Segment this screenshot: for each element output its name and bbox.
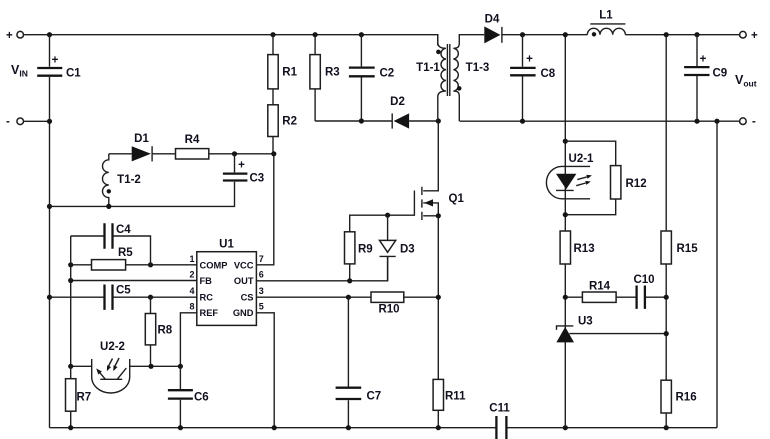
- svg-text:-: -: [752, 116, 756, 128]
- svg-text:R4: R4: [185, 134, 200, 146]
- diode D3: [387, 215, 389, 281]
- svg-text:REF: REF: [200, 308, 219, 318]
- svg-text:C8: C8: [541, 68, 556, 80]
- svg-text:T1-1: T1-1: [416, 62, 440, 74]
- diode D4: [484, 26, 500, 43]
- node C7 bottom junction: [346, 425, 351, 430]
- wire + terminal to top rail: [23, 35, 438, 46]
- svg-text:R9: R9: [358, 244, 373, 256]
- wire U3 ref line: [569, 333, 666, 335]
- svg-text:C1: C1: [66, 68, 81, 80]
- node C8 top junction: [520, 32, 525, 37]
- transformer core: [447, 44, 449, 96]
- resistor R3: [314, 35, 316, 121]
- terminal + output: [740, 31, 747, 38]
- svg-text:C10: C10: [633, 274, 654, 286]
- wire bottom ground rail: [50, 427, 718, 429]
- node FB/R7/U2-2 junction: [68, 364, 73, 369]
- node C8 bottom junction: [520, 119, 525, 124]
- node CS/C7 junction: [346, 295, 351, 300]
- capacitor C11: [496, 416, 506, 439]
- wire gate line: [350, 215, 415, 232]
- node R13/R14 junction: [563, 295, 568, 300]
- wire left rail: [49, 121, 51, 427]
- resistor R4: [176, 149, 209, 159]
- node C9 top junction: [694, 32, 699, 37]
- inductor T1-2: [103, 154, 109, 207]
- svg-text:FB: FB: [200, 276, 213, 286]
- svg-text:R12: R12: [626, 178, 647, 190]
- node R1 top junction: [270, 32, 275, 37]
- node gate/D3 junction: [385, 213, 390, 218]
- svg-text:+: +: [6, 30, 13, 42]
- svg-text:U1: U1: [219, 239, 234, 251]
- node C1 top junction: [47, 32, 52, 37]
- resistor R5: [71, 264, 151, 266]
- svg-text:6: 6: [259, 270, 264, 280]
- node trafo primary bottom / Q1 drain: [436, 118, 441, 123]
- node U2-1 feed top junction: [563, 32, 568, 37]
- resistor R8: [150, 297, 152, 366]
- wire - terminal: [23, 120, 49, 122]
- svg-text:7: 7: [259, 254, 264, 264]
- svg-text:D3: D3: [400, 244, 415, 256]
- node RC line junction: [47, 295, 52, 300]
- node OUT/R9 junction: [347, 278, 352, 283]
- svg-text:VCC: VCC: [234, 260, 254, 270]
- svg-text:-: -: [6, 116, 10, 128]
- svg-text:R10: R10: [378, 304, 399, 316]
- node REF/C6 junction: [178, 364, 183, 369]
- node R10/Q1 source junction: [436, 295, 441, 300]
- svg-text:COMP: COMP: [200, 260, 228, 270]
- wire output return rail: [460, 120, 740, 122]
- IC U1 controller body: [197, 252, 257, 326]
- svg-text:C2: C2: [380, 68, 395, 80]
- svg-text:T1-2: T1-2: [117, 174, 141, 186]
- capacitor C5: [105, 285, 113, 310]
- svg-text:+: +: [526, 54, 533, 66]
- svg-text:+: +: [751, 30, 758, 42]
- wire L1 to + out: [625, 34, 739, 36]
- capacitor C6: [179, 366, 181, 427]
- svg-text:Q1: Q1: [449, 193, 465, 205]
- svg-text:8: 8: [189, 302, 194, 312]
- node R2/VCC: [271, 151, 276, 156]
- svg-text:2: 2: [189, 270, 194, 280]
- svg-text:R2: R2: [282, 116, 297, 128]
- capacitor C3: [234, 154, 236, 173]
- svg-text:R5: R5: [118, 247, 133, 259]
- svg-text:C7: C7: [367, 391, 382, 403]
- capacitor C10: [637, 286, 645, 309]
- svg-text:C6: C6: [194, 392, 209, 404]
- svg-text:RC: RC: [200, 292, 214, 302]
- svg-text:+: +: [52, 55, 59, 67]
- wire CS pin3: [256, 296, 438, 298]
- node C10/R15 junction: [664, 295, 669, 300]
- svg-text:R15: R15: [677, 243, 699, 255]
- wire FB node vertical: [70, 236, 72, 366]
- capacitor C4: [71, 236, 151, 265]
- capacitor C7: [347, 297, 349, 428]
- node R8 bottom junction: [148, 364, 153, 369]
- mosfet Q1: [423, 121, 438, 191]
- wire right rail down: [716, 121, 718, 428]
- node R16 bottom junction: [664, 425, 669, 430]
- node C9 bottom junction: [694, 119, 699, 124]
- svg-text:R14: R14: [589, 281, 611, 293]
- wire RC: [50, 296, 197, 298]
- wire R15 feed: [665, 35, 667, 231]
- resistor R7: [70, 366, 72, 427]
- node R11 bottom junction: [436, 425, 441, 430]
- svg-text:D4: D4: [485, 14, 500, 26]
- node U3 anode junction: [563, 425, 568, 430]
- svg-text:C5: C5: [116, 285, 131, 297]
- svg-text:3: 3: [259, 286, 264, 296]
- node C6 bottom junction: [178, 425, 183, 430]
- node R7 bottom junction: [68, 425, 73, 430]
- resistor R1: [272, 35, 274, 105]
- node R4/C3: [232, 151, 237, 156]
- wire D4 to L1: [502, 34, 587, 36]
- svg-text:R1: R1: [282, 67, 297, 79]
- node R15 feed junction: [664, 32, 669, 37]
- diode D1: [132, 146, 151, 161]
- svg-text:GND: GND: [233, 308, 254, 318]
- wire aux return: [50, 182, 235, 207]
- svg-text:R3: R3: [325, 67, 340, 79]
- resistor R12: [565, 141, 615, 215]
- wire D2 line: [315, 120, 438, 122]
- svg-text:4: 4: [189, 286, 194, 296]
- wire aux line D1-R4: [109, 153, 274, 155]
- svg-text:C4: C4: [116, 224, 131, 236]
- svg-text:R8: R8: [158, 325, 173, 337]
- svg-text:R13: R13: [574, 243, 595, 255]
- resistor R2: [268, 105, 278, 137]
- svg-text:R11: R11: [445, 391, 466, 403]
- wire VCC vertical: [256, 154, 273, 265]
- svg-text:U3: U3: [578, 316, 593, 328]
- inductor L1: [587, 28, 625, 34]
- capacitor C9: [696, 35, 698, 122]
- resistor R11: [433, 379, 443, 410]
- resistor R13: [560, 231, 570, 264]
- wire R14 line: [565, 296, 666, 298]
- terminal + input: [17, 31, 24, 38]
- svg-text:C3: C3: [250, 173, 265, 185]
- node R3 top junction: [313, 32, 318, 37]
- resistor R9: [345, 232, 355, 264]
- node aux return junction: [47, 204, 52, 209]
- svg-text:R7: R7: [77, 392, 92, 404]
- terminal - output: [740, 118, 747, 125]
- capacitor C1: [49, 35, 51, 67]
- wire pin1 COMP: [151, 264, 197, 266]
- svg-text:D1: D1: [134, 133, 149, 145]
- svg-text:+: +: [700, 54, 707, 66]
- svg-text:1: 1: [189, 254, 194, 264]
- resistor R16: [661, 380, 671, 413]
- resistor R10: [371, 292, 404, 302]
- svg-text:R16: R16: [676, 392, 697, 404]
- svg-text:U2-2: U2-2: [100, 341, 125, 353]
- node C2 top junction: [359, 32, 364, 37]
- wire secondary top lead: [459, 35, 484, 41]
- svg-text:C9: C9: [713, 68, 728, 80]
- wire U2-1 feed from +Vout: [564, 35, 566, 166]
- capacitor C2: [360, 35, 362, 121]
- transformer T1 primary winding: [438, 35, 446, 121]
- wire Q1 source down: [437, 216, 439, 380]
- node U2-1 anode junction: [563, 139, 568, 144]
- terminal - input: [17, 118, 24, 125]
- svg-text:U2-1: U2-1: [569, 153, 595, 165]
- resistor R14: [582, 292, 616, 302]
- resistor R15: [661, 231, 671, 264]
- wire REF: [180, 313, 196, 367]
- node C1 bottom junction: [47, 119, 52, 124]
- capacitor C8: [522, 35, 524, 122]
- svg-text:D2: D2: [390, 96, 405, 108]
- transformer T1 secondary winding: [453, 41, 459, 121]
- svg-text:L1: L1: [599, 10, 613, 22]
- wire OUT pin6: [256, 256, 387, 280]
- svg-text:C11: C11: [489, 403, 510, 415]
- svg-text:OUT: OUT: [234, 276, 254, 286]
- node return-to-ground junction: [714, 119, 719, 124]
- svg-text:5: 5: [259, 302, 264, 312]
- svg-text:T1-3: T1-3: [466, 62, 490, 74]
- svg-text:CS: CS: [241, 292, 254, 302]
- wire FB: [71, 280, 197, 282]
- node GND pin junction: [272, 425, 277, 430]
- diode D2: [394, 113, 410, 128]
- wire GND pin5: [256, 313, 274, 428]
- svg-text:+: +: [238, 160, 245, 172]
